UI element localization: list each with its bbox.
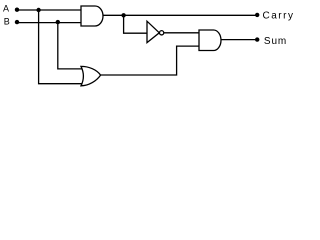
input terminal B bbox=[15, 20, 19, 24]
junction on wire A bbox=[36, 8, 40, 12]
wire B branch down bbox=[58, 22, 83, 69]
output terminal Carry bbox=[255, 13, 259, 17]
svg-text:Sum: Sum bbox=[264, 36, 287, 47]
wire NOT output to AND gate U3 bbox=[164, 32, 200, 34]
svg-text:Carry: Carry bbox=[263, 11, 295, 22]
OR gate U4 bbox=[81, 66, 101, 85]
svg-text:A: A bbox=[3, 4, 9, 14]
wire B to AND gate bbox=[17, 22, 82, 24]
junction on Carry wire bbox=[121, 13, 125, 17]
wire Sum bbox=[221, 39, 256, 41]
svg-text:B: B bbox=[4, 17, 10, 27]
AND gate U3 bbox=[199, 30, 221, 51]
NOT gate U2 triangle bbox=[147, 21, 159, 42]
wire A branch down bbox=[39, 10, 83, 84]
NOT gate U2 bubble bbox=[159, 31, 163, 35]
wire OR output to AND gate U3 bbox=[101, 46, 200, 75]
wire A to AND gate bbox=[17, 9, 82, 11]
AND gate U1 bbox=[81, 6, 103, 26]
wire to NOT gate bbox=[124, 15, 148, 33]
input terminal A bbox=[15, 8, 19, 12]
wire Carry bbox=[103, 14, 256, 16]
junction on wire B bbox=[56, 20, 60, 24]
output terminal Sum bbox=[255, 37, 259, 41]
